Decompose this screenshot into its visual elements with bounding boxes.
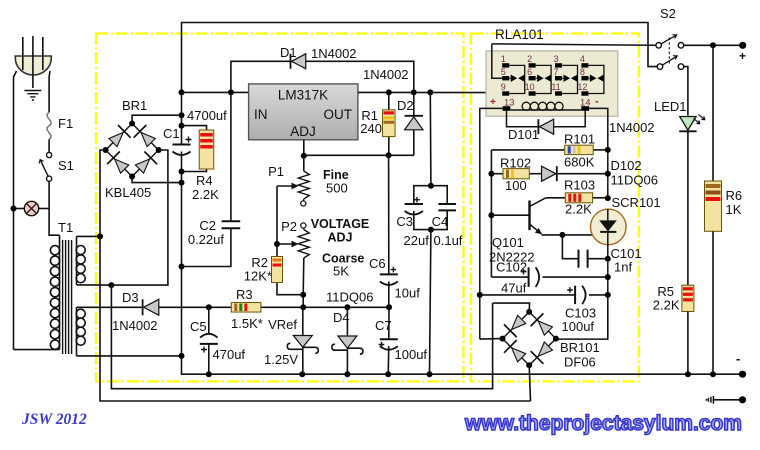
BR1 corner junctions [129, 121, 135, 127]
wire: primary bottom to left rail [14, 349, 60, 351]
capacitor C102 47uf with leads [491, 276, 528, 278]
svg-text:C7: C7 [375, 318, 392, 333]
transformer T1 core [63, 240, 72, 354]
wire: R101 left end down to R102 node [490, 150, 492, 277]
svg-text:C1: C1 [163, 126, 180, 141]
node AC1 junction [97, 233, 103, 239]
junction: D1/C2 riser on IN line [228, 89, 234, 95]
svg-text:RLA101: RLA101 [495, 27, 544, 42]
wire: SCR column to BR101 right corner [556, 295, 608, 339]
diode D101 across coil [507, 111, 539, 127]
BR1 diode top-left [109, 133, 123, 147]
wire: relay contact to S2 (top pole) [492, 44, 656, 45]
svg-text:12K*: 12K* [244, 269, 272, 284]
earth ground under plug [24, 91, 41, 101]
svg-text:C3: C3 [396, 214, 413, 229]
section box right (dash-dot yellow) [471, 34, 639, 382]
wire: secondary B bottom lead to negative rail [77, 355, 182, 357]
node AC2 junction [108, 282, 114, 288]
switch S2 top pole [656, 43, 662, 49]
svg-text:IN: IN [254, 107, 268, 122]
svg-text:ADJ: ADJ [290, 124, 316, 139]
capacitor C5 470uf with leads [208, 307, 210, 333]
wire: R6 to negative rail [712, 231, 714, 374]
svg-text:100uf: 100uf [562, 319, 595, 334]
svg-text:0.22uf: 0.22uf [188, 232, 225, 247]
transformer T1 secondary winding B [76, 307, 78, 356]
svg-text:6: 6 [527, 67, 532, 77]
capacitor C4 0.1uf with leads [431, 186, 447, 204]
svg-text:R3: R3 [236, 287, 253, 302]
wire: S2 bottom pole to LED column [684, 67, 688, 116]
diode D2 (1N4002) vertical [413, 92, 415, 115]
junction dots on left crowbar column [488, 171, 494, 177]
wire: fuse to switch S1 [48, 139, 50, 152]
svg-text:VRef: VRef [268, 317, 297, 332]
svg-text:240: 240 [360, 121, 382, 136]
svg-text:S1: S1 [58, 158, 74, 173]
wire: C2 bottom to negative rail [182, 228, 231, 266]
svg-text:2.2K: 2.2K [565, 202, 592, 217]
svg-text:S2: S2 [660, 6, 676, 21]
svg-text:1N4002: 1N4002 [311, 46, 357, 61]
svg-text:9: 9 [501, 82, 506, 92]
S2 gang link (dashed) [668, 38, 670, 64]
BR1 diode bottom-left [115, 159, 129, 173]
resistor R103 2.2K with leads [546, 197, 566, 199]
diode D3 1N4002 [142, 299, 144, 315]
wire: BR1 AC left to node AC1 and down to long AC line B [100, 150, 531, 401]
resistor R3 1.5K* [231, 303, 261, 313]
wire: C3/C4 junction down to negative rail [430, 230, 431, 375]
wire: D2 bottom to ADJ line [413, 130, 415, 156]
svg-text:D102: D102 [611, 158, 642, 173]
junction: emitter/gate/C101 node [559, 232, 565, 238]
svg-text:P1: P1 [268, 164, 284, 179]
wire: aux rail from transformer through D3 and R3 [77, 306, 143, 308]
svg-text:C102: C102 [496, 260, 527, 275]
transistor Q101 2N2222 [491, 214, 529, 216]
wire: pin 13 to BR101 + column [480, 108, 503, 339]
node P wiper junction [274, 241, 280, 247]
plug prong L [22, 37, 24, 70]
node C3/C4 bottom junction [428, 227, 434, 233]
resistor R2 12K* with leads [276, 244, 278, 257]
svg-text:Q101: Q101 [492, 235, 524, 250]
svg-text:4: 4 [580, 54, 585, 64]
plug prong M [32, 36, 34, 88]
wire: node AC2 down to long AC line A [111, 285, 492, 389]
output - terminal [739, 371, 746, 378]
junction: R6 column top [710, 42, 716, 48]
svg-text:11DQ06: 11DQ06 [326, 290, 373, 305]
potentiometer P1 (Fine 500) element [303, 156, 305, 171]
capacitor C2 riser wire [230, 92, 232, 221]
svg-text:10uf: 10uf [395, 286, 421, 301]
junction dots on ADJ line [301, 153, 307, 159]
resistor R4 with leads [182, 126, 207, 130]
svg-text:1N4002: 1N4002 [609, 120, 655, 135]
wire: BR101 top corner to AC line A [493, 303, 530, 312]
SCR101 thyristor [591, 209, 627, 245]
svg-text:2.2K: 2.2K [653, 298, 680, 313]
svg-text:ADJ: ADJ [327, 231, 352, 245]
svg-text:P2: P2 [281, 219, 297, 234]
svg-text:470uf: 470uf [213, 347, 246, 362]
svg-text:C4: C4 [432, 214, 449, 229]
svg-text:C2: C2 [199, 218, 216, 233]
node C3/C4 top junction [428, 183, 434, 189]
relay RLA101 body box [486, 51, 618, 116]
relay coil winding [510, 109, 581, 111]
svg-text:1nf: 1nf [614, 260, 632, 275]
svg-text:LED1: LED1 [654, 99, 687, 114]
svg-text:D3: D3 [122, 290, 139, 305]
svg-text:3: 3 [553, 54, 558, 64]
chassis ground symbol bottom right [706, 396, 713, 404]
svg-text:BR1: BR1 [122, 98, 147, 113]
wire: plug left to left rail [14, 71, 17, 350]
capacitor C1 (4700uf) inline on rail [173, 144, 191, 146]
svg-text:F1: F1 [58, 116, 73, 131]
junction dots on SCR column [605, 147, 611, 153]
svg-text:47uf: 47uf [501, 281, 527, 296]
output + terminal [739, 42, 746, 49]
svg-text:1.5K*: 1.5K* [231, 316, 263, 331]
AC plug P [15, 56, 51, 75]
diode D1 1N4002 [290, 54, 292, 69]
node R2/P2 junction [300, 292, 306, 298]
svg-text:D4: D4 [333, 310, 350, 325]
svg-text:-: - [595, 96, 599, 108]
BR1 diode top-right [141, 133, 155, 147]
transformer T1 secondary winding A [76, 236, 78, 285]
svg-text:1N4002: 1N4002 [112, 318, 158, 333]
svg-text:+: + [490, 97, 496, 108]
svg-text:500: 500 [326, 181, 348, 196]
wire: secondary A top lead to node AC1 [77, 235, 101, 237]
bridge rectifier BR101 outline [503, 312, 530, 339]
wire: BR101 bottom corner to AC line B [529, 365, 530, 401]
svg-text:8: 8 [580, 67, 585, 77]
svg-text:R6: R6 [726, 188, 743, 203]
svg-text:D101: D101 [508, 127, 539, 142]
wire: ground to terminal [713, 399, 742, 401]
svg-text:SCR101: SCR101 [612, 195, 661, 210]
junction: lamp on left rail [11, 206, 17, 212]
svg-text:C6: C6 [369, 256, 386, 271]
BR101 diode top-right [538, 321, 552, 335]
junction dots on OUT line [386, 89, 392, 95]
capacitor C6 10uf with riser to ADJ line [388, 155, 390, 274]
svg-text:11: 11 [551, 82, 560, 92]
wire: BR1 + (top) to DC rail [132, 115, 181, 123]
wire: S1 down to lamp level [49, 181, 59, 235]
diode D1 line (protection loop over regulator) [231, 61, 414, 92]
BR101 diode bottom-right [538, 342, 552, 356]
P1 wiper arrow [277, 185, 295, 187]
svg-text:R102: R102 [500, 156, 531, 171]
svg-text:7: 7 [553, 67, 558, 77]
resistor R101 680K with leads [491, 149, 564, 151]
svg-text:+: + [739, 49, 746, 63]
wire: P1 wiper down to P2 wiper node [276, 186, 278, 244]
junction dots on rail x181.5 [179, 89, 185, 95]
potentiometer P2 (Coarse 5K) element [301, 223, 306, 228]
wire: secondary A bottom lead to node AC2 [77, 284, 112, 286]
capacitor C101 1nf with leads [562, 235, 578, 259]
capacitor C103 100uf with leads [480, 294, 575, 296]
svg-text:R103: R103 [564, 178, 595, 193]
wire: OUT line from regulator to relay pin 9 [358, 91, 502, 93]
junction dots on aux rail [206, 304, 212, 310]
wire: IN line from rail to regulator [182, 91, 249, 93]
wire: - rail (below C1) down and right along bottom [182, 152, 743, 375]
P2 wiper arrow [277, 243, 295, 245]
svg-text:JSW 2012: JSW 2012 [21, 411, 87, 428]
svg-text:D1: D1 [280, 45, 297, 60]
wire: R5 to negative rail [687, 312, 689, 375]
svg-text:C5: C5 [190, 319, 207, 334]
svg-text:2.2K: 2.2K [192, 187, 219, 202]
BR101 diode top-left [512, 315, 526, 329]
diode D102 11DQ06 [556, 166, 558, 181]
lamp (neon indicator) [14, 208, 25, 210]
capacitor C3 22uf with leads [414, 186, 431, 204]
wire: OUT sense column down to C3/C4 [429, 92, 432, 185]
wire: raw + rail (above C1) [182, 23, 658, 145]
svg-text:100: 100 [505, 178, 527, 193]
plug prong R [42, 37, 44, 70]
svg-text:1.25V: 1.25V [264, 352, 298, 367]
wire: pin 5 feed from S2 line [492, 44, 502, 78]
BR101 corner junctions [526, 309, 532, 315]
svg-text:5: 5 [501, 67, 506, 77]
svg-text:1K: 1K [726, 202, 742, 217]
svg-text:D2: D2 [397, 98, 414, 113]
switch S2 bottom pole [657, 64, 663, 70]
junction dots on negative rail [206, 371, 212, 377]
wire: BR1 - (bottom) to rail below C1 [132, 177, 181, 183]
svg-text:1N4002: 1N4002 [363, 67, 409, 82]
wire: Q101 emitter to SCR gate [542, 232, 601, 235]
wire: plug right to right rail [48, 71, 51, 112]
svg-text:680K: 680K [564, 155, 595, 170]
svg-text:100uf: 100uf [395, 347, 428, 362]
P1 bottom terminal [301, 201, 306, 206]
svg-text:R4: R4 [196, 173, 213, 188]
capacitor C7 100uf [388, 307, 390, 339]
resistor R102 100 with leads [491, 173, 503, 175]
svg-text:R101: R101 [564, 132, 595, 147]
resistor R5 2.2K [682, 285, 694, 311]
wire: LED cathode down to R5 [687, 131, 689, 285]
svg-text:2: 2 [527, 54, 532, 64]
svg-text:-: - [736, 351, 740, 366]
svg-text:LM317K: LM317K [278, 88, 328, 103]
switch S1 [47, 152, 52, 157]
wire: S2 top pole to + output [684, 44, 743, 46]
bridge rectifier BR1 outline [106, 124, 133, 151]
svg-text:VOLTAGE: VOLTAGE [311, 217, 370, 231]
fuse F1 [47, 112, 51, 139]
svg-text:22uf: 22uf [404, 233, 430, 248]
svg-text:10: 10 [525, 82, 535, 92]
resistor R1 240 with leads [388, 92, 390, 109]
wire: P2 bottom to R2 node and rail [302, 258, 305, 307]
svg-text:5K: 5K [333, 264, 349, 279]
resistor R6 1K with leads [712, 45, 714, 181]
voltage regulator U1 LM317K body [249, 84, 358, 140]
ADJ line wire [303, 140, 305, 156]
svg-text:www.theprojectasylum.com: www.theprojectasylum.com [464, 412, 742, 435]
BR101 diode bottom-left [512, 348, 526, 362]
svg-text:12: 12 [577, 82, 587, 92]
svg-text:11DQ06: 11DQ06 [611, 173, 658, 188]
wire: BR101 left corner to relay column [480, 338, 503, 341]
svg-text:DF06: DF06 [564, 355, 596, 370]
svg-text:KBL405: KBL405 [105, 185, 151, 200]
svg-text:1: 1 [501, 54, 506, 64]
svg-text:0.1uf: 0.1uf [434, 233, 463, 248]
svg-text:T1: T1 [58, 220, 73, 235]
BR1 diode bottom-right [135, 159, 149, 173]
svg-text:4700uf: 4700uf [187, 108, 227, 123]
reference diode VRef 1.25V [302, 307, 304, 335]
wire: pin 14 to SCR column [589, 108, 608, 198]
section box left (dash-dot yellow) [96, 34, 464, 382]
svg-text:OUT: OUT [324, 107, 353, 122]
transformer T1 primary winding [59, 235, 61, 349]
diode D4 11DQ06 [346, 307, 348, 336]
wire: C6 bottom to aux rail [388, 281, 390, 307]
capacitor C2 (0.22uf) [222, 221, 241, 228]
svg-text:BR101: BR101 [560, 340, 600, 355]
wire: BR1 AC right down to node AC2 [111, 150, 167, 285]
